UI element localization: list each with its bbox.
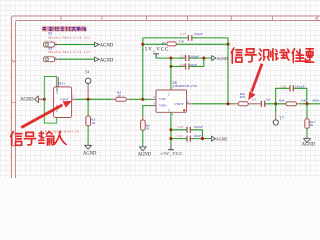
svg-text:1K: 1K [91,121,96,125]
capacitor C8 [261,101,264,107]
annotation text 信号输入 [11,131,67,145]
wire R12 to AGND [306,128,308,138]
junction C8/T7/C18 [274,102,277,105]
svg-text:330pF: 330pF [194,32,203,36]
capacitor C15 [186,55,189,61]
resistor R7 [167,42,176,46]
resistor R24 [283,102,300,106]
svg-text:100nF: 100nF [190,55,200,59]
svg-text:V+: V+ [168,92,171,96]
wire VOUT row [192,103,234,105]
svg-text:100nF: 100nF [194,125,204,129]
capacitor C13 [187,136,190,142]
power port AGND (C13) [211,136,215,141]
wire C8 to node [265,103,286,105]
junction on shield [43,98,46,101]
junction R7 row right [226,43,229,46]
junction R24/R12 [305,102,308,105]
svg-text:C13: C13 [177,134,183,138]
junction C13 row [169,137,172,140]
svg-text:S001: S001 [312,98,319,102]
svg-text:49.9: 49.9 [240,95,246,99]
annotation text 信号测试位置 [231,48,313,63]
wire R3 to AGND [87,126,89,146]
svg-text:VIN-: VIN- [159,97,168,101]
svg-text:+5V_VCC: +5V_VCC [160,151,182,156]
J2 pin 2 stub [72,98,77,100]
junction C13/C14 right [201,137,204,140]
svg-text:AGND: AGND [302,143,316,148]
wire C14 row [171,130,203,139]
svg-text:AGND: AGND [83,151,97,156]
wire C15 row [156,57,212,59]
svg-text:C15: C15 [180,55,186,59]
border zone ticks (left) [11,103,16,146]
svg-text:C8: C8 [252,98,256,102]
svg-text:VOUT: VOUT [174,102,184,106]
svg-text:1uF: 1uF [266,98,271,102]
capacitor C16 [186,63,189,69]
resistor R6 [142,116,144,120]
background grid [0,0,320,178]
wire J2 pin2 to R4 [77,98,112,100]
border zone tick arrow top right [316,17,319,20]
svg-text:CONT: CONT [60,97,69,101]
sheet border outer [12,16,320,178]
wire node to R12 [306,104,308,119]
svg-text:AGND: AGND [216,56,228,61]
wire R7 row [143,43,228,45]
wire C16 row [171,58,204,66]
svg-text:AGND: AGND [138,153,152,158]
wire node to VIN- pin [143,98,152,100]
power port AGND (C15) [212,56,216,61]
power port +5V_VCC [168,147,174,150]
title highlight 初始信号积分电路 [42,26,87,31]
svg-text:REF1: REF1 [58,81,66,85]
junction VOUT/feedback [226,102,229,105]
svg-text:51K: 51K [179,40,185,44]
svg-text:AGND: AGND [20,98,34,103]
wire P3 to AGND [59,58,95,60]
wire R6 to AGND [142,130,144,147]
U6 part marker dot [183,109,185,111]
power port AGND (P1) [95,42,100,47]
svg-text:51K: 51K [301,98,307,102]
svg-text:Header-Male-2.54_1x1: Header-Male-2.54_1x1 [48,36,90,40]
junction C15 row / C16 right rail [202,57,205,60]
power port AGND (below R6) [139,147,146,151]
border zone ticks (top) [61,16,273,21]
svg-text:VIN+: VIN+ [159,104,167,108]
svg-text:-5V_VCC: -5V_VCC [142,48,168,53]
connector P1 symbol [44,42,59,47]
test point T7 [273,120,278,125]
wire -5V rail to op-amp pin 7 [170,58,172,90]
wire C13 row [171,138,212,140]
wire R4 to U6 input node [130,98,143,100]
svg-text:AGND: AGND [100,44,114,49]
test point T4 [85,78,90,83]
annotation arrow (signal input) [21,101,72,129]
wire P1 to AGND [59,44,95,46]
wire feedback right rail down to output [227,44,229,104]
resistor R12 [305,119,309,129]
border zone tick arrow left [12,60,15,63]
junction C16 row / pin7 rail [169,65,172,68]
sheet border inner [16,21,320,179]
svg-text:OPA695N/250: OPA695N/250 [173,84,197,88]
svg-text:T7: T7 [280,116,284,120]
svg-text:C16: C16 [180,63,186,67]
wire C17 top row [143,38,228,44]
capacitor C18 [290,85,293,91]
wire AGND to J2 shield [38,98,44,100]
U6 pin 2 stub (VIN-) [151,98,156,100]
power port AGND (below R12) [304,139,311,143]
resistor R26 [234,102,261,106]
junction C14 row [169,128,172,131]
svg-text:50: 50 [146,127,150,131]
T4 stem [87,84,89,100]
U6 pin 3 stub (VIN+) [151,105,156,107]
J2 pin 1 stub [57,77,59,87]
capacitor C17 [189,35,192,41]
svg-text:GND: GND [55,86,59,94]
svg-text:C17: C17 [180,32,186,36]
svg-text:AGND: AGND [216,137,228,142]
power port AGND (P3) [95,57,100,62]
wire down to R3 [87,99,89,116]
power port AGND (below R3) [85,145,92,149]
wire R24 to edge [300,103,320,105]
wire VIN+ branch [143,106,152,116]
node junction feedback/input [141,98,144,101]
svg-text:R7: R7 [162,41,166,45]
T7 stem [275,104,277,113]
U6 pin 6 stub (VOUT) [187,103,193,105]
resistor R3 [86,116,91,126]
connector J2 body [54,87,72,118]
junction C15 row / pin7 rail [169,57,172,60]
svg-text:C14: C14 [177,125,183,129]
junction R7 row left [141,43,144,46]
svg-text:100pF: 100pF [295,85,305,89]
svg-text:T4: T4 [85,71,89,75]
svg-text:10uF: 10uF [194,134,202,138]
svg-text:10uF: 10uF [190,63,198,67]
svg-text:R24: R24 [279,98,285,102]
capacitor C14 [187,127,190,133]
wire C18 loop [276,88,290,104]
feedback rail wire up [142,38,144,99]
op-amp U6 [151,87,192,116]
svg-text:Header-Male-2.54_1x1: Header-Male-2.54_1x1 [48,50,90,54]
connector P3 symbol [44,56,59,61]
svg-text:V-: V- [168,109,171,112]
wire op-amp pin 4 rail down [170,112,172,146]
connector J2 shield box (green) [44,77,56,124]
svg-text:C18: C18 [281,84,287,88]
node junction T4/R3 [87,98,90,101]
svg-text:AGND: AGND [100,58,114,63]
annotation arrow (test position) [248,63,263,100]
resistor R4 [111,97,130,101]
